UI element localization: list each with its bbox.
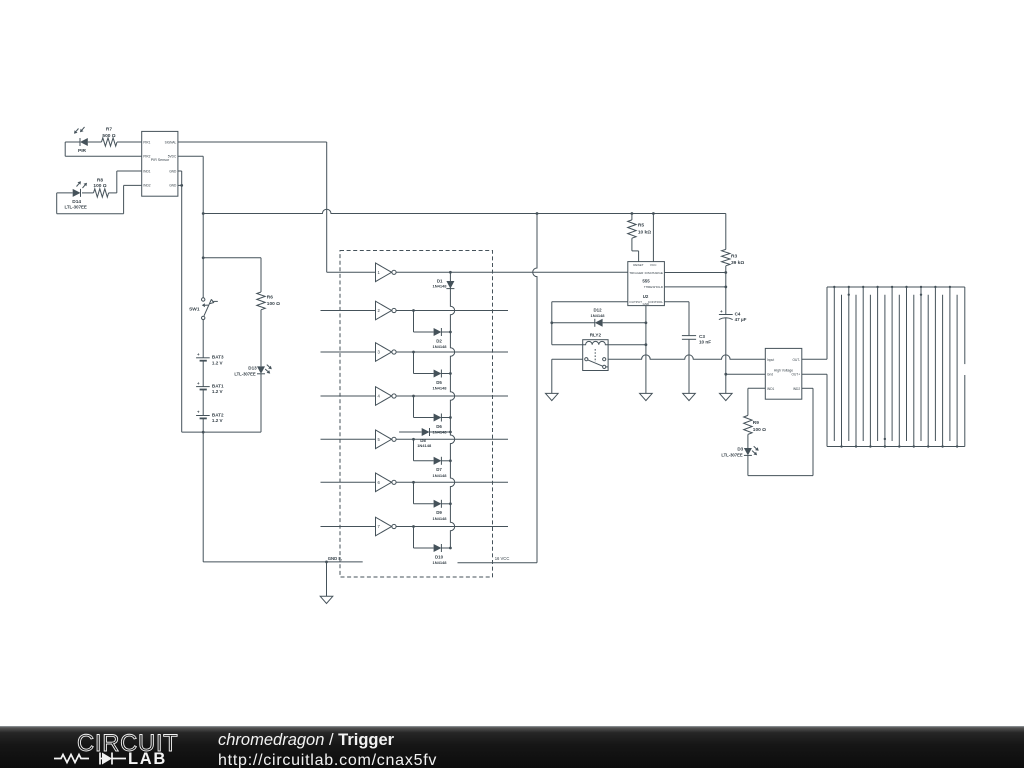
wire D13 down to battery bottom [260, 374, 262, 432]
LED D14 [57, 181, 94, 209]
svg-text:Input: Input [767, 358, 774, 362]
wire diode loop 3 [414, 352, 451, 374]
wire down to GND stub [203, 432, 363, 562]
svg-text:R6: R6 [267, 294, 273, 300]
svg-text:100 Ω: 100 Ω [93, 183, 106, 189]
resistor R6 [257, 292, 280, 310]
svg-text:1N4148: 1N4148 [432, 386, 447, 391]
ground C3 [683, 393, 696, 400]
node D12 right junction [645, 321, 648, 324]
svg-text:C3: C3 [699, 334, 705, 339]
wire inverter 1 output to TRIGGER [396, 271, 628, 273]
resistor R5 [628, 214, 652, 239]
inverter 4 [321, 387, 397, 406]
node GND stub junction [325, 561, 328, 564]
diode D12 1N4148 [552, 308, 646, 327]
wire diode loop 2 [414, 311, 451, 333]
wire BAT3-BAT1 [202, 361, 204, 387]
resistor R3 [722, 214, 745, 266]
node 5VDC rail junction [202, 212, 205, 215]
node THRESHOLD junction [724, 286, 727, 289]
svg-text:RLY2: RLY2 [590, 333, 602, 338]
svg-text:555: 555 [642, 278, 650, 283]
wire diode OR bus [450, 272, 454, 548]
svg-text:SW1: SW1 [189, 307, 200, 313]
inverter 7 [321, 517, 397, 536]
wire IND2 loop [57, 185, 142, 213]
node bus junction D5 [449, 372, 452, 375]
wire relay NO to High Voltage Input [608, 355, 765, 359]
wire inverter 2 output [396, 310, 508, 312]
inverter 5 [321, 430, 397, 449]
wire 555 GND vertical [645, 306, 647, 394]
svg-text:PIR Sensor: PIR Sensor [151, 158, 170, 162]
wire Gnd pin of High Voltage box [726, 373, 766, 375]
ground C4/R3 [720, 393, 733, 400]
svg-text:IND1: IND1 [143, 169, 150, 173]
wire DISCHARGE to R3 [664, 272, 725, 274]
svg-text:THRESHOLD: THRESHOLD [644, 285, 664, 289]
node Gnd pin junction [724, 373, 727, 376]
svg-text:R9: R9 [753, 420, 759, 426]
svg-text:VCC: VCC [650, 263, 657, 267]
wire relay common to ground [552, 359, 583, 393]
node inverter 4 output junction [412, 395, 415, 398]
svg-text:BAT1: BAT1 [212, 383, 224, 388]
node bus junction D6 [449, 416, 452, 419]
resistor R7 [102, 126, 118, 146]
wire R6 to D13 [260, 310, 262, 367]
node DISCHARGE junction [724, 271, 727, 274]
wire inverter 6 output [396, 481, 508, 483]
node battery bottom junction [202, 431, 205, 434]
inverter 2 [321, 301, 397, 320]
wire switch to BAT3 [202, 320, 204, 358]
svg-text:+: + [720, 309, 723, 314]
node battery branch junction [202, 256, 205, 259]
inverter 1 [327, 263, 396, 282]
wire BAT2 to bottom [202, 418, 204, 432]
op-amp U2 555 timer box [628, 262, 665, 306]
svg-text:LTL-307EE: LTL-307EE [721, 453, 743, 458]
wire inverter 7 output [396, 526, 508, 528]
svg-text:16 VCC: 16 VCC [495, 556, 510, 561]
svg-text:R5: R5 [638, 222, 644, 228]
wire D3 to IND2 loop [748, 388, 813, 475]
svg-text:DISCHARGE: DISCHARGE [645, 271, 663, 275]
svg-text:1N4148: 1N4148 [417, 443, 432, 448]
wire R9 to D3 [747, 434, 749, 448]
resistor R8 [93, 177, 108, 197]
diode D5 1N4148 [432, 370, 447, 391]
svg-text:D13: D13 [248, 365, 257, 370]
svg-text:D9: D9 [436, 510, 442, 515]
svg-text:BAT2: BAT2 [212, 412, 224, 417]
node inverter 2 output junction [412, 309, 415, 312]
svg-text:High Voltage: High Voltage [774, 368, 793, 372]
node OUTPUT-D12 junction [550, 321, 553, 324]
svg-text:CONTROL: CONTROL [648, 300, 663, 304]
footer title text [218, 730, 437, 771]
svg-text:PIR: PIR [78, 148, 87, 154]
wire inverter 5 output [396, 438, 508, 440]
svg-text:D10: D10 [435, 554, 444, 559]
node bus junction D10 [449, 547, 452, 550]
wire BAT1-BAT2 [202, 390, 204, 416]
wire VCC top rail [203, 209, 726, 213]
CircuitLab logo [40, 726, 240, 768]
High Voltage module box U3 [765, 348, 802, 399]
svg-text:LTL-307EE: LTL-307EE [65, 204, 87, 209]
svg-text:R7: R7 [106, 126, 112, 132]
svg-text:IND2: IND2 [793, 387, 800, 391]
svg-text:1N4148: 1N4148 [432, 516, 447, 521]
PIR Sensor module box [142, 131, 178, 196]
wire VCC pin 555 [652, 214, 654, 262]
wire diode loop 5 [414, 439, 451, 461]
battery BAT1 [196, 381, 224, 394]
node D1 junction [449, 271, 452, 274]
node inverter 3 output junction [412, 351, 415, 354]
svg-text:D12: D12 [593, 308, 602, 313]
node bus junction D7 [449, 459, 452, 462]
svg-text:D3: D3 [737, 447, 743, 452]
wire GND pins of PIR box [178, 171, 182, 432]
wire R3 to C4 [725, 266, 727, 315]
relay RLY2 [583, 333, 608, 371]
node bus junction D2 [449, 331, 452, 334]
diode D10 1N4148 [432, 544, 447, 565]
capacitor C4 47 uF [719, 309, 747, 322]
svg-text:Gnd: Gnd [767, 373, 773, 377]
LED D3 [721, 446, 758, 457]
svg-text:PIR2: PIR2 [143, 155, 150, 159]
svg-text:D5: D5 [436, 380, 442, 385]
wire THRESHOLD to R3 [664, 286, 725, 288]
resistor R9 [744, 415, 766, 434]
svg-text:100 Ω: 100 Ω [267, 301, 280, 307]
switch SW1 [189, 298, 218, 320]
wire CONTROL to C3 [664, 302, 689, 336]
svg-text:BAT3: BAT3 [212, 355, 224, 360]
svg-text:1.2 V: 1.2 V [212, 360, 224, 365]
IC dashed boundary box [340, 251, 493, 578]
svg-text:GND: GND [169, 169, 177, 173]
wire SIGNAL net [178, 142, 327, 272]
svg-text:1N4148: 1N4148 [432, 473, 447, 478]
node inverter 5 output junction [412, 438, 415, 441]
node inverter 6 output junction [412, 481, 415, 484]
wire R5 to RESET [632, 238, 639, 261]
node coil right junction [645, 343, 648, 346]
inverter 3 [321, 343, 397, 362]
svg-text:LAB: LAB [128, 750, 167, 768]
wire coil right to GND vert [608, 344, 646, 346]
svg-text:OUT+: OUT+ [792, 373, 801, 377]
svg-text:1N4148: 1N4148 [432, 284, 447, 289]
svg-text:10 nF: 10 nF [699, 340, 711, 345]
wire C4 to ground [725, 318, 727, 394]
node inverter 7 output junction [412, 525, 415, 528]
ground main [320, 562, 333, 604]
wire VCC bus [458, 214, 538, 563]
diode D9 1N4148 [432, 500, 447, 521]
svg-text:D6: D6 [436, 424, 442, 429]
wire OUT- to element top [802, 287, 827, 359]
svg-text:IND1: IND1 [767, 387, 774, 391]
svg-text:D2: D2 [436, 338, 442, 343]
svg-text:100 Ω: 100 Ω [753, 427, 766, 433]
svg-text:GND: GND [643, 302, 649, 306]
wire inverter 4 output [396, 395, 508, 397]
svg-text:IND2: IND2 [143, 184, 150, 188]
diode D8 1N4148 inline [399, 428, 450, 448]
svg-text:500 Ω: 500 Ω [102, 133, 115, 139]
wire OUT+ to element bottom [802, 374, 827, 446]
ground 555 GND [640, 393, 653, 400]
wire diode loop 6 [414, 482, 451, 504]
wire PIR photodiode loop top [65, 142, 142, 156]
svg-text:1.2 V: 1.2 V [212, 418, 224, 423]
svg-text:U2: U2 [643, 294, 649, 299]
ground relay common [546, 393, 559, 400]
LED D13 [234, 365, 271, 377]
diode D6 1N4148 [432, 414, 447, 435]
svg-text:GND: GND [169, 184, 177, 188]
node bus junction D9 [449, 502, 452, 505]
svg-text:SIGNAL: SIGNAL [165, 140, 177, 144]
svg-text:OUT-: OUT- [792, 358, 800, 362]
svg-text:D7: D7 [436, 467, 442, 472]
svg-text:47 µF: 47 µF [735, 317, 747, 322]
node rail junctions [536, 212, 655, 215]
svg-text:1.2 V: 1.2 V [212, 389, 224, 394]
svg-text:R3: R3 [731, 253, 737, 259]
wire diode loop 7 [414, 527, 451, 549]
svg-text:1N4148: 1N4148 [432, 560, 447, 565]
svg-text:1N4148: 1N4148 [432, 344, 447, 349]
svg-text:RESET: RESET [633, 263, 643, 267]
diode D2 1N4148 [432, 328, 447, 349]
svg-text:10 kΩ: 10 kΩ [638, 229, 651, 235]
svg-text:C4: C4 [735, 312, 741, 317]
svg-text:+: + [197, 381, 200, 386]
wire 5VDC net [178, 156, 203, 298]
battery BAT2 [196, 410, 224, 423]
photodiode PIR [74, 127, 88, 154]
node GND pin junction [180, 184, 183, 187]
wire battery branch top [203, 258, 261, 292]
heating element interdigitated grid [827, 286, 965, 448]
wire IND1 loop [109, 171, 142, 193]
inverter 6 [321, 473, 397, 492]
capacitor C3 10 nF [682, 334, 711, 345]
svg-text:1N4148: 1N4148 [590, 313, 605, 318]
diode D1 1N4148 [432, 279, 454, 289]
svg-text:+: + [197, 410, 200, 415]
svg-text:PIR1: PIR1 [143, 140, 150, 144]
wire inverter 3 output [396, 351, 508, 353]
wire diode loop 4 [414, 396, 451, 418]
battery BAT3 [196, 352, 224, 365]
svg-text:TRIGGER: TRIGGER [629, 271, 644, 275]
svg-text:LTL-307EE: LTL-307EE [234, 371, 256, 376]
diode D7 1N4148 [432, 457, 447, 478]
wire battery bottom rail [182, 431, 261, 433]
svg-text:R8: R8 [97, 177, 103, 183]
wire C3 to ground [688, 339, 690, 393]
svg-text:+: + [197, 352, 200, 357]
wire OUTPUT net [552, 302, 628, 345]
node bus junction D8 [449, 431, 452, 434]
svg-text:39 kΩ: 39 kΩ [731, 260, 744, 266]
wire IND1 loop of HV box [748, 388, 765, 415]
svg-text:OUTPUT: OUTPUT [629, 300, 642, 304]
